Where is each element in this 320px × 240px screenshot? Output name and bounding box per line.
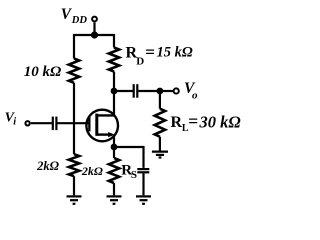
ground (CS) — [136, 196, 151, 203]
wire gate — [58, 122, 90, 124]
terminal Vo — [174, 88, 179, 93]
wire output node to RL — [159, 91, 161, 109]
label RD=15 kΩ — [126, 43, 193, 68]
svg-text:10 kΩ: 10 kΩ — [24, 64, 61, 80]
ground (RL) — [152, 152, 168, 158]
wire RS to ground — [113, 183, 115, 195]
svg-text:2kΩ: 2kΩ — [81, 164, 103, 178]
terminal VDD — [92, 17, 97, 22]
junction drain node — [111, 88, 118, 95]
terminal Vi — [25, 121, 29, 125]
svg-text:R: R — [171, 114, 183, 131]
wire CS to ground — [142, 173, 144, 195]
wire VDD stub — [93, 22, 95, 35]
svg-text:D: D — [136, 55, 144, 67]
transistor M1 — [86, 91, 118, 147]
junction VDD node — [91, 31, 98, 38]
label RS — [121, 163, 137, 182]
svg-text:=: = — [188, 111, 198, 131]
resistor RL — [155, 109, 165, 137]
svg-text:30 kΩ: 30 kΩ — [199, 112, 242, 131]
resistor R2 (2k) — [69, 154, 79, 176]
svg-text:=: = — [145, 43, 155, 62]
wire Vi to capacitor C1 — [31, 122, 52, 124]
resistor RS (2k) — [109, 158, 119, 183]
svg-text:o: o — [192, 89, 198, 101]
svg-text:i: i — [13, 117, 16, 128]
wire source node to CS — [114, 147, 144, 168]
svg-text:15 kΩ: 15 kΩ — [157, 45, 193, 61]
wire RL bottom to ground — [159, 137, 161, 151]
label VDD — [61, 6, 88, 26]
svg-text:DD: DD — [71, 15, 88, 26]
svg-text:2kΩ: 2kΩ — [36, 159, 60, 173]
wire C2 to output node — [138, 90, 160, 92]
ground (RS) — [107, 196, 122, 203]
label RL=30 kΩ — [171, 111, 242, 134]
junction output node — [157, 88, 164, 95]
capacitor C1 input coupling — [53, 117, 57, 131]
wire source node to RS — [113, 147, 115, 158]
label Vi — [5, 111, 17, 128]
wire top rail — [74, 35, 114, 59]
ground (R2) — [67, 196, 82, 203]
wire R1 bottom to gate rail — [73, 83, 75, 123]
capacitor CS bypass — [137, 169, 149, 172]
resistor RD — [109, 48, 119, 72]
wire output node to Vo terminal — [160, 90, 173, 92]
wire drain node to capacitor C2 — [114, 90, 133, 92]
capacitor C2 output coupling — [134, 84, 138, 98]
svg-text:S: S — [131, 169, 137, 181]
wire RD bottom to drain node — [113, 72, 115, 92]
wire R2 to ground — [73, 176, 75, 195]
junction source node — [111, 144, 118, 151]
wire gate rail to R2 — [73, 123, 75, 154]
label Vo — [184, 80, 198, 102]
resistor R1 (10 k) — [69, 59, 79, 83]
